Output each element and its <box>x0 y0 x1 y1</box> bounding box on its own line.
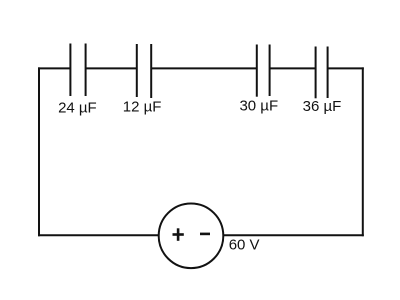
svg-text:24 µF: 24 µF <box>58 100 97 117</box>
svg-text:30 µF: 30 µF <box>239 98 278 115</box>
capacitor C3 (30 µF) plates <box>257 45 270 97</box>
value label 24 µF <box>58 100 97 117</box>
wire: between C2 and C3 <box>151 67 257 69</box>
svg-text:12 µF: 12 µF <box>123 98 162 115</box>
voltage source V1 circle <box>159 204 224 269</box>
wire: left side <box>38 67 40 236</box>
wire: bottom-right segment <box>223 234 364 236</box>
voltage source minus sign <box>200 233 210 236</box>
wire: between C3 and C4 <box>270 67 316 69</box>
wire: right side <box>362 67 364 236</box>
value label 12 µF <box>123 98 162 115</box>
wire: top-left segment <box>38 67 70 69</box>
voltage source plus sign <box>173 228 184 241</box>
capacitor C4 (36 µF) plates <box>316 47 328 99</box>
value label 60 V <box>229 236 260 253</box>
wire: top-right segment <box>328 67 364 69</box>
capacitor C2 (12 µF) plates <box>137 44 151 98</box>
wire: bottom-left segment <box>38 234 160 236</box>
wire: between C1 and C2 <box>86 67 137 69</box>
svg-text:60 V: 60 V <box>229 236 260 253</box>
value label 36 µF <box>303 98 342 115</box>
capacitor C1 (24 µF) plates <box>70 44 85 97</box>
value label 30 µF <box>239 98 278 115</box>
svg-text:36 µF: 36 µF <box>303 98 342 115</box>
